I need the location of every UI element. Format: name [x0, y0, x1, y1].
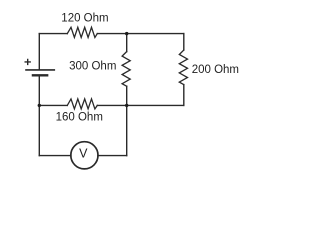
battery plus sign	[25, 59, 30, 64]
svg-text:V: V	[79, 146, 88, 160]
node junction dot left middle	[38, 104, 41, 107]
svg-text:160 Ohm: 160 Ohm	[56, 111, 103, 123]
resistor R 160 Ohm	[67, 99, 97, 109]
wire 300 branch bottom through cross junction down to voltmeter loop	[126, 86, 128, 155]
wire left vertical upper to battery	[38, 34, 40, 70]
wire left vertical lower from battery to bottom loop	[38, 76, 40, 156]
svg-text:120 Ohm: 120 Ohm	[61, 13, 108, 25]
battery long plate	[26, 69, 54, 71]
battery short plate	[33, 74, 47, 76]
wire middle left segment	[39, 104, 67, 106]
wire top-right segment	[97, 33, 184, 35]
wire 200 branch bottom stub	[183, 85, 185, 106]
resistor R 200 Ohm	[179, 50, 187, 85]
wire top-left segment	[39, 33, 67, 35]
wire bottom right segment	[98, 155, 127, 157]
node junction dot top of 300 branch	[125, 32, 128, 35]
voltmeter V1 circle	[71, 142, 98, 169]
node junction dot middle cross	[125, 104, 128, 107]
resistor R 300 Ohm	[122, 52, 130, 87]
wire 200 branch top stub	[183, 34, 185, 50]
wire middle right segment	[97, 104, 184, 106]
svg-text:300 Ohm: 300 Ohm	[69, 60, 116, 72]
svg-text:200 Ohm: 200 Ohm	[192, 64, 239, 76]
wire 300 branch top stub	[126, 34, 128, 52]
resistor R 120 Ohm	[67, 27, 97, 37]
wire bottom left segment	[39, 155, 71, 157]
